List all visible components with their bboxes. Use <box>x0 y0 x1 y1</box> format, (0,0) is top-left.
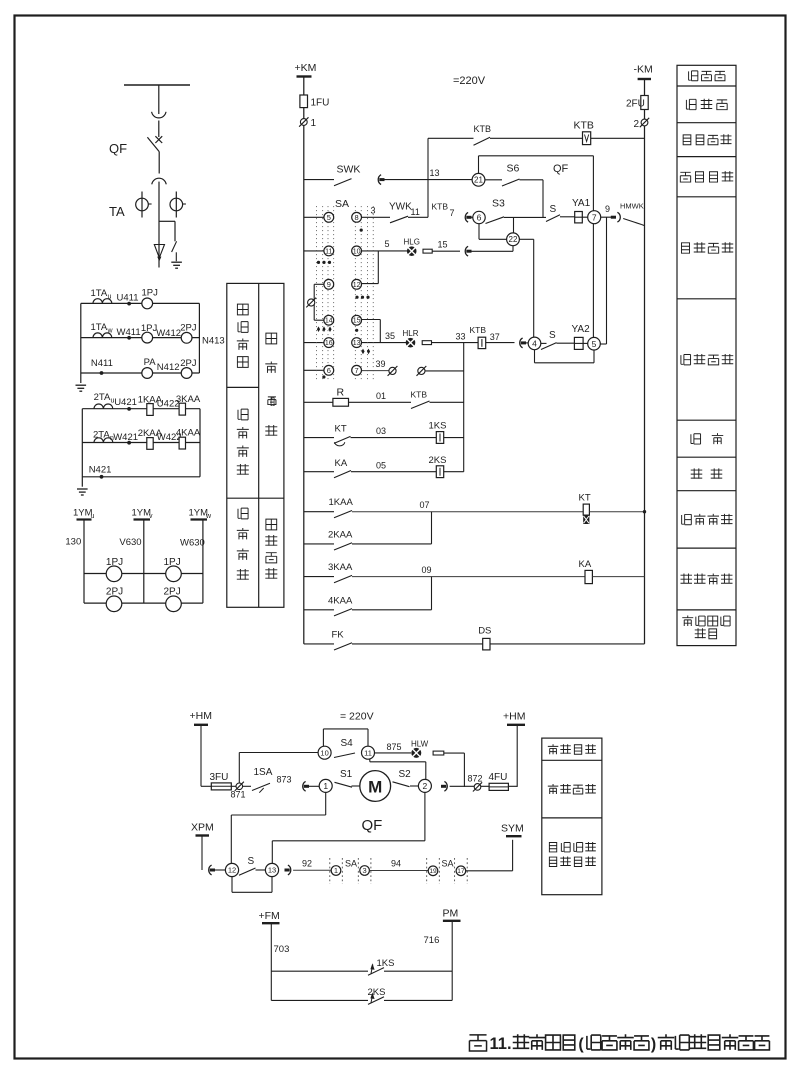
connector plug <box>444 781 447 791</box>
SA aux dashes 3 <box>357 858 359 884</box>
contact S4 <box>334 753 355 758</box>
svg-text:3FU: 3FU <box>210 772 229 783</box>
terminal on SA9-14 link <box>308 299 315 306</box>
svg-text:9: 9 <box>327 280 331 289</box>
svg-text:u: u <box>108 294 112 301</box>
svg-text:]: ] <box>273 396 276 406</box>
wire SA stub row2 <box>304 250 324 252</box>
svg-text:S6: S6 <box>507 163 520 175</box>
node 13 <box>265 863 278 876</box>
svg-text:1KS: 1KS <box>377 958 395 969</box>
svg-text:S: S <box>549 330 556 341</box>
svg-text:21: 21 <box>474 176 483 185</box>
wire <box>158 121 160 138</box>
wire <box>215 869 226 871</box>
node W421 <box>127 441 131 445</box>
meter 1PJ row2 <box>142 332 153 343</box>
svg-text:11: 11 <box>411 207 420 217</box>
svg-text:9: 9 <box>605 204 610 214</box>
node W411 <box>127 336 131 340</box>
svg-text:+FM: +FM <box>259 910 280 922</box>
svg-text:15: 15 <box>353 318 361 325</box>
svg-text:w: w <box>107 328 114 335</box>
wire SWK row <box>304 179 334 181</box>
ground <box>77 488 88 490</box>
connector plug <box>209 865 212 875</box>
wire <box>352 543 432 545</box>
svg-text:R: R <box>337 387 345 399</box>
svg-text:PA: PA <box>144 357 157 368</box>
contact 3KAA <box>334 575 352 582</box>
wire motor row left <box>201 785 211 787</box>
wire <box>349 401 412 403</box>
fuse 3FU <box>211 783 231 790</box>
contact 2KAA <box>334 543 352 550</box>
svg-text:KTB: KTB <box>411 390 428 400</box>
wire 2KS row <box>271 999 368 1001</box>
svg-text:13: 13 <box>268 866 276 875</box>
resistor HLR <box>422 341 431 345</box>
contact HMWK <box>611 216 616 219</box>
wire node1 down loop <box>325 792 327 815</box>
connector plug <box>288 865 291 875</box>
legend table right <box>677 65 736 645</box>
svg-text:+HM: +HM <box>503 711 525 723</box>
busbar top <box>124 84 190 86</box>
svg-text:13: 13 <box>353 340 361 347</box>
wire U421 row <box>82 408 200 410</box>
svg-text:1TA: 1TA <box>91 322 108 333</box>
svg-text:33: 33 <box>456 331 466 341</box>
wire W411 row <box>81 337 200 339</box>
contact S trip <box>541 343 557 350</box>
wire <box>557 342 575 344</box>
wire node6 to node22 <box>478 224 480 240</box>
svg-text:FK: FK <box>332 629 345 640</box>
fuse 1FU <box>300 95 308 108</box>
SA dots under 13 <box>361 349 364 355</box>
CT 2TAn <box>94 438 103 443</box>
SA dots under 11 <box>317 261 320 264</box>
svg-text:10: 10 <box>320 748 328 757</box>
connector plug <box>465 246 468 256</box>
svg-text:1FU: 1FU <box>311 98 330 109</box>
wire 2PJ voltage row <box>84 602 203 604</box>
SA contact 6 <box>324 365 334 375</box>
wire SA stub row6 <box>304 369 324 371</box>
meter 2PJ row2 <box>181 332 192 343</box>
wire <box>352 609 432 611</box>
solenoid YA2 trip coil <box>574 337 583 349</box>
svg-text:2KAA: 2KAA <box>328 529 353 540</box>
svg-text:5: 5 <box>592 339 597 349</box>
wire <box>430 401 464 403</box>
wire <box>432 250 460 252</box>
svg-text:2TA: 2TA <box>93 429 110 440</box>
legend row overcurrent <box>691 434 701 444</box>
svg-text:N412: N412 <box>157 362 180 373</box>
svg-text:PM: PM <box>443 908 459 920</box>
svg-text:W421: W421 <box>113 432 138 443</box>
node 1 <box>319 779 332 792</box>
svg-text:2PJ: 2PJ <box>164 587 181 598</box>
svg-text:KA: KA <box>335 458 348 469</box>
contact S2 <box>393 782 410 787</box>
wire 94 row <box>369 870 428 872</box>
legend cell current circuit <box>266 333 277 344</box>
SA contact 10 <box>352 246 362 256</box>
wire <box>158 182 160 268</box>
svg-text:11.: 11. <box>490 1035 512 1053</box>
wire PM drop <box>451 921 453 1001</box>
wire S6 drop <box>542 180 544 218</box>
lamp HLR red <box>406 338 416 348</box>
meter PA <box>142 368 153 379</box>
svg-text:W630: W630 <box>180 538 205 549</box>
bus left measurement <box>80 303 82 383</box>
wire node11 to node2 <box>369 759 371 762</box>
lamp HLG green <box>407 246 417 256</box>
svg-text:39: 39 <box>376 359 386 369</box>
legend row busbar <box>689 71 698 81</box>
svg-text:01: 01 <box>376 391 386 401</box>
wire XPM drop <box>201 836 203 871</box>
svg-text:4KAA: 4KAA <box>176 428 201 439</box>
wire 07 drop <box>431 512 433 544</box>
svg-text:7: 7 <box>450 208 455 218</box>
connector plug <box>303 781 306 791</box>
wire to node33 vertical <box>425 370 464 372</box>
legend row fuse <box>686 99 696 109</box>
node U411 <box>127 302 131 306</box>
node 6 <box>473 211 485 223</box>
wire <box>450 785 518 787</box>
svg-text:4KAA: 4KAA <box>328 595 353 606</box>
svg-text:1: 1 <box>334 866 338 875</box>
wire <box>352 576 585 578</box>
contact S6 <box>485 179 502 181</box>
svg-text:2PJ: 2PJ <box>180 358 197 369</box>
meter 2PJ row3 <box>181 368 192 379</box>
current transformer TA left <box>141 192 143 218</box>
svg-text:KTB: KTB <box>574 120 594 132</box>
caption title <box>469 1035 486 1051</box>
legend table bottom right <box>542 738 602 895</box>
svg-text:YA1: YA1 <box>572 198 591 209</box>
SA contact 5 <box>324 212 334 222</box>
CT 1TAu <box>93 299 102 304</box>
wire 2KAA row <box>304 543 334 545</box>
switch SA linkage dashes col1 <box>316 206 318 381</box>
legend row rear door interlock <box>682 616 693 626</box>
svg-text:22: 22 <box>509 235 518 244</box>
wire node22 right drop <box>519 238 533 240</box>
connector plug <box>378 175 381 185</box>
svg-text:M: M <box>368 778 382 797</box>
wire <box>560 216 575 218</box>
terminal 871 <box>236 783 243 790</box>
node U421 <box>127 407 131 411</box>
svg-text:KT: KT <box>335 424 347 435</box>
wire <box>490 643 645 645</box>
wire 871 riser to node10 <box>238 753 240 783</box>
resistor HLG <box>423 249 432 253</box>
bus right measurement <box>198 303 200 373</box>
SA contact 14 <box>324 315 334 325</box>
legend row tripping circuit <box>681 355 691 365</box>
svg-text:7: 7 <box>592 212 597 222</box>
svg-text:09: 09 <box>422 565 432 575</box>
wire R row <box>304 401 333 403</box>
wire <box>256 869 266 871</box>
wire KT row <box>304 437 334 439</box>
svg-text:2PJ: 2PJ <box>106 587 123 598</box>
wire node2 down loop <box>424 792 426 840</box>
wire node33 vertical <box>463 343 465 472</box>
svg-text:KTB: KTB <box>432 202 449 212</box>
SA dots under 12 <box>355 296 358 299</box>
svg-text:3KAA: 3KAA <box>328 562 353 573</box>
node N411 <box>100 371 104 375</box>
wire <box>583 342 588 344</box>
wire 09 drop <box>431 577 433 610</box>
contact 4KAA <box>334 609 352 616</box>
svg-text:SA: SA <box>442 859 454 869</box>
terminal 2 <box>641 119 648 126</box>
wire S4 top loop <box>323 728 368 730</box>
legend row test closing <box>680 172 690 182</box>
legend table left <box>227 283 284 607</box>
svg-text:19: 19 <box>429 868 437 875</box>
node 12 <box>225 863 238 876</box>
node 10 <box>318 746 331 759</box>
wire <box>432 342 479 344</box>
wire node5 right link <box>600 343 606 345</box>
SA aux dashes 17 <box>454 858 456 884</box>
wire 130 <box>83 520 85 604</box>
wire <box>591 137 645 139</box>
svg-text:S4: S4 <box>341 738 354 749</box>
svg-text:871: 871 <box>231 790 246 800</box>
resistor HLW <box>433 751 444 755</box>
wire 4KAA row <box>304 609 334 611</box>
svg-text:U421: U421 <box>114 397 137 408</box>
svg-text:875: 875 <box>387 742 402 752</box>
svg-text:N413: N413 <box>202 336 225 347</box>
svg-text:2: 2 <box>423 781 428 791</box>
svg-text:SYM: SYM <box>501 823 524 835</box>
wire <box>351 437 437 439</box>
svg-text:QF: QF <box>362 817 383 834</box>
contact switch 1SA <box>252 783 270 790</box>
wire SA12 up link <box>362 283 379 285</box>
svg-text:15: 15 <box>438 240 448 250</box>
svg-text:SA: SA <box>345 859 357 869</box>
contact 1KAA <box>334 511 352 518</box>
wire +HM right drop <box>516 725 518 787</box>
wire <box>592 576 644 578</box>
wire <box>351 471 436 473</box>
contact KT delayed <box>334 436 351 443</box>
svg-text:11: 11 <box>325 248 332 255</box>
wire +HM drop <box>200 725 202 787</box>
contact S <box>546 215 560 222</box>
node 5 <box>588 337 601 350</box>
drawout plug lower <box>152 178 166 184</box>
svg-text:S3: S3 <box>492 198 505 210</box>
wire 1PJ voltage row <box>84 573 203 575</box>
wire SA stub row1 <box>304 216 324 218</box>
SA dot under 6 <box>322 375 325 378</box>
svg-text:-KM: -KM <box>634 64 653 76</box>
svg-text:TA: TA <box>109 204 125 219</box>
svg-text:2PJ: 2PJ <box>180 323 197 334</box>
svg-text:V630: V630 <box>119 537 141 548</box>
wire <box>490 137 583 139</box>
SA aux contact 1 <box>331 866 341 876</box>
resistor R <box>333 398 349 406</box>
wire 1KS row <box>271 970 368 972</box>
wire <box>589 511 644 513</box>
contact KTB NC row <box>411 401 430 409</box>
fuse 2FU <box>641 96 648 110</box>
solenoid YA1 closing coil <box>575 212 583 223</box>
wire SA10 to HLG <box>362 250 408 252</box>
ground <box>171 261 182 263</box>
relay coil KT with flag <box>583 504 589 515</box>
svg-text:10: 10 <box>353 248 361 255</box>
wire to SYM <box>466 870 513 872</box>
svg-text:HLR: HLR <box>403 329 419 338</box>
svg-text:SA: SA <box>335 198 349 210</box>
contact S1 <box>335 782 353 787</box>
svg-text:8: 8 <box>355 213 359 222</box>
svg-text:6: 6 <box>327 366 331 375</box>
svg-text:1PJ: 1PJ <box>142 288 159 299</box>
wire node13 vertical <box>427 138 429 217</box>
svg-text:QF: QF <box>553 163 569 175</box>
svg-text:4: 4 <box>532 338 537 348</box>
meter 2PJ voltage right <box>166 596 182 612</box>
wire <box>520 179 544 181</box>
svg-text:KTB: KTB <box>474 124 492 134</box>
SA contact 7 <box>352 365 362 375</box>
SA contact 16 <box>324 338 334 348</box>
wire <box>444 437 464 439</box>
relay 1KAA <box>147 404 153 416</box>
breaker QF blade <box>147 137 159 151</box>
legend row overcurrent protection <box>682 514 692 524</box>
wire <box>352 785 360 787</box>
node N421 <box>100 475 104 479</box>
svg-text:130: 130 <box>65 537 81 548</box>
relay 3KAA <box>179 403 185 415</box>
relay coil KTB <box>583 132 591 145</box>
node 22 <box>507 233 520 246</box>
svg-text:(: ( <box>578 1036 584 1053</box>
SA dot under 8 <box>360 229 363 232</box>
svg-text:+HM: +HM <box>190 710 212 722</box>
svg-text:YA2: YA2 <box>572 324 591 335</box>
svg-text:DS: DS <box>478 626 491 637</box>
wire 3KAA row <box>304 576 334 578</box>
bus right protection <box>199 409 201 477</box>
wire SA15 down link <box>362 319 381 321</box>
svg-text:KTB: KTB <box>470 325 487 335</box>
legend row quick break protection <box>681 573 693 583</box>
contact S3 <box>486 217 505 224</box>
svg-text:3KAA: 3KAA <box>176 394 201 405</box>
svg-text:14: 14 <box>325 318 333 325</box>
svg-text:QF: QF <box>109 141 127 156</box>
legend cell measurement meters <box>237 304 248 315</box>
interlock DS <box>483 638 490 650</box>
wire HLW drop <box>463 753 465 787</box>
wire N421 row <box>82 476 200 478</box>
svg-text:1: 1 <box>311 118 317 129</box>
svg-text:2KS: 2KS <box>368 987 386 998</box>
wire <box>243 785 251 787</box>
svg-text:873: 873 <box>277 775 292 785</box>
bus negative -KM vertical <box>644 79 646 644</box>
motor M spring charging <box>360 771 391 802</box>
legend cell overcurrent protection lower <box>238 508 248 519</box>
SA contact 15 <box>352 315 362 325</box>
link 2KS <box>436 466 443 478</box>
coil KTB current <box>478 337 486 348</box>
wire 92 row <box>293 869 331 871</box>
SA aux contact 17 <box>456 866 466 876</box>
svg-text:12: 12 <box>353 282 361 289</box>
wire to -KM <box>642 225 645 226</box>
wire FK row <box>304 643 334 645</box>
svg-text:16: 16 <box>325 340 333 347</box>
svg-text:1PJ: 1PJ <box>141 323 158 334</box>
wire U411 row <box>81 302 200 304</box>
svg-text:S1: S1 <box>340 769 353 780</box>
wire W630 <box>202 520 204 604</box>
svg-text:U411: U411 <box>117 293 139 304</box>
wire <box>352 511 583 513</box>
wire <box>352 643 483 645</box>
svg-text:92: 92 <box>302 859 312 869</box>
svg-text:13: 13 <box>430 168 440 178</box>
wire <box>526 342 529 344</box>
svg-text:05: 05 <box>376 460 386 470</box>
svg-text:1SA: 1SA <box>254 767 273 778</box>
svg-text:1: 1 <box>323 781 328 791</box>
meter 1PJ <box>142 298 153 309</box>
connector plug <box>465 212 468 222</box>
svg-text:HMWK: HMWK <box>620 202 644 211</box>
svg-text:37: 37 <box>490 332 500 342</box>
lamp HLW white <box>411 748 421 758</box>
svg-text:17: 17 <box>457 868 465 875</box>
node 4 <box>528 337 541 350</box>
svg-text:03: 03 <box>376 426 386 436</box>
bus positive +KM vertical <box>303 77 305 644</box>
CT 2TAu <box>94 404 103 409</box>
svg-text:11: 11 <box>364 748 372 757</box>
wire <box>444 471 464 473</box>
SA dot under 15 <box>355 329 358 332</box>
legend row quick break <box>691 468 703 478</box>
svg-text:HLW: HLW <box>411 740 429 749</box>
feeder arrow <box>154 245 164 258</box>
node 4 wire <box>541 342 547 344</box>
SA contact 8 <box>352 212 362 222</box>
node 2 <box>418 779 431 792</box>
